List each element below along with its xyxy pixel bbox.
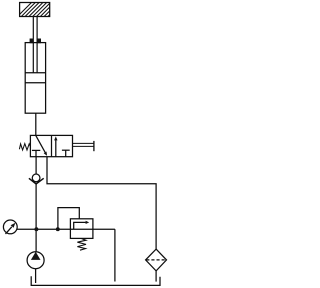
plunger actuator bbox=[73, 141, 94, 151]
blocked port R (right square) bbox=[62, 150, 70, 157]
pipe: cylinder to valve bbox=[35, 113, 37, 135]
rod seals bbox=[30, 39, 41, 44]
return spring bbox=[19, 144, 30, 150]
pipe: valve P to check valve bbox=[35, 157, 37, 174]
wire: gauge branch to relief valve outlet bbox=[17, 228, 115, 230]
tank bbox=[31, 276, 160, 285]
junction dot (main line) bbox=[34, 227, 38, 231]
pipe: check valve to pump bbox=[35, 184, 37, 252]
piston bbox=[25, 73, 45, 83]
pilot line bbox=[58, 208, 79, 229]
piston rod bbox=[33, 17, 37, 73]
cylinder body bbox=[25, 43, 45, 114]
wire: pump to tank bbox=[35, 269, 37, 283]
valve body 3/2 bbox=[30, 135, 72, 156]
relief valve arrow bbox=[74, 221, 90, 229]
relief valve body bbox=[70, 219, 93, 239]
check valve bbox=[29, 174, 44, 184]
load mass W bbox=[16, 2, 62, 18]
wire: valve R exhaust to filter bbox=[47, 157, 156, 249]
pressure gauge bbox=[3, 220, 17, 234]
valve flow arrow P to A (right square) bbox=[54, 136, 57, 156]
filter bbox=[146, 249, 167, 271]
pump bbox=[27, 252, 44, 269]
relief valve spring bbox=[77, 239, 86, 251]
junction dot (pilot tap) bbox=[56, 227, 60, 231]
wire: relief valve drain to tank bbox=[114, 229, 116, 281]
blocked port P (left square) bbox=[32, 150, 40, 156]
wire: filter to tank bbox=[155, 271, 157, 282]
valve flow path A to R (left square) bbox=[36, 136, 47, 156]
